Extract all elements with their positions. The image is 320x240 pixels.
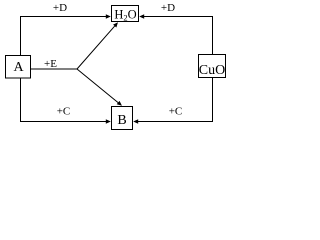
- wire +C left horizontal: [20, 121, 106, 123]
- wire diagonal to B: [77, 69, 118, 103]
- wire CuO bottom vertical: [212, 78, 214, 122]
- svg-text:+D: +D: [53, 2, 67, 14]
- svg-text:A: A: [13, 60, 24, 75]
- arrowhead into H2O right: [139, 14, 144, 19]
- wire A bottom vertical: [20, 78, 22, 122]
- box B: [112, 107, 133, 130]
- svg-text:+C: +C: [57, 106, 71, 118]
- wire diagonal to H2O: [77, 26, 115, 69]
- box H2O: [112, 6, 139, 22]
- wire +E horizontal: [31, 68, 78, 70]
- wire +C right horizontal: [138, 121, 213, 123]
- arrowhead into B right: [133, 119, 138, 124]
- svg-text:B: B: [117, 113, 126, 128]
- arrowhead into H2O left: [106, 14, 111, 19]
- arrowhead into B left: [106, 119, 111, 124]
- svg-text:CuO: CuO: [199, 63, 225, 78]
- arrowhead diagonal into B top: [117, 101, 122, 106]
- svg-text:+C: +C: [169, 106, 183, 118]
- wire +D right horizontal: [144, 16, 213, 18]
- box A: [6, 56, 31, 79]
- svg-text:+D: +D: [161, 2, 175, 14]
- box CuO: [199, 55, 226, 78]
- wire A top vertical: [20, 17, 22, 56]
- wire +D left horizontal: [20, 16, 106, 18]
- svg-text:+E: +E: [44, 58, 57, 70]
- arrowhead diagonal into H2O bottom: [113, 22, 118, 27]
- wire CuO top vertical: [212, 17, 214, 55]
